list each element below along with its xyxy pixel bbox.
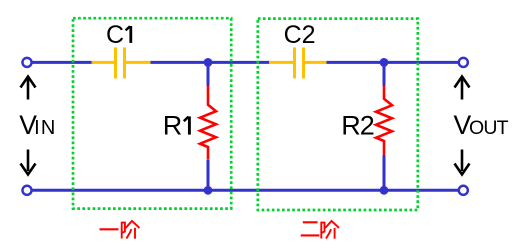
junction node A (top of R1) xyxy=(204,58,213,67)
junction node B (top of R2) xyxy=(380,58,389,67)
terminal: VOUT + (top right open circle) xyxy=(459,58,468,67)
svg-text:R: R xyxy=(163,111,183,141)
VIN up arrow xyxy=(21,77,36,100)
terminal: VIN - (bottom left open circle) xyxy=(22,186,31,195)
capacitor C2 right lead xyxy=(305,61,327,64)
terminal: VIN + (top left open circle) xyxy=(22,58,31,67)
junction node (bottom of R1) xyxy=(204,186,213,195)
capacitor C1 right lead xyxy=(126,61,151,64)
wire: R2 upper lead xyxy=(383,62,386,86)
label VIN xyxy=(19,110,55,140)
label C1 xyxy=(106,21,131,49)
label R1 xyxy=(163,111,190,141)
阶 glyph of 二阶 xyxy=(321,221,338,239)
VIN down arrow xyxy=(21,150,36,175)
wire: R2 lower lead xyxy=(383,155,386,190)
wire: top rail, right segment (C2 to VOUT terminal through node B) xyxy=(327,61,464,64)
svg-text:R2: R2 xyxy=(341,111,375,141)
label 二阶 (second order), 二 strokes xyxy=(301,222,320,235)
svg-text:C2: C2 xyxy=(284,21,316,49)
capacitor C1 left lead xyxy=(92,61,115,64)
VOUT up arrow xyxy=(455,77,470,100)
wire: R1 lower lead xyxy=(207,159,210,190)
stage-2 dashed box (二阶 section outline) xyxy=(258,19,418,210)
resistor R2 zigzag body xyxy=(376,85,392,156)
capacitor C2 left plate xyxy=(293,47,296,78)
svg-text:IN: IN xyxy=(34,117,55,139)
resistor R1 zigzag body xyxy=(200,85,216,159)
capacitor C1 right plate xyxy=(123,47,126,78)
wire: top rail, middle segment (C1 to C2 through node A) xyxy=(151,61,271,64)
label VOUT xyxy=(454,110,509,140)
svg-text:C: C xyxy=(106,21,124,49)
junction node (bottom of R2) xyxy=(380,186,389,195)
wire: bottom rail (VIN return to VOUT return) xyxy=(27,189,463,192)
VOUT down arrow xyxy=(455,150,470,175)
terminal: VOUT - (bottom right open circle) xyxy=(459,186,468,195)
label 一阶 (first order), 一 stroke xyxy=(100,228,119,230)
wire: top rail, left segment (VIN terminal to C1) xyxy=(27,61,93,64)
阶 glyph of 一阶 xyxy=(122,221,139,239)
capacitor C2 right plate xyxy=(302,47,305,78)
capacitor C1 left plate xyxy=(114,47,117,78)
wire: R1 upper lead xyxy=(207,62,210,86)
stage-1 dashed box (一阶 section outline) xyxy=(73,18,231,208)
svg-text:OUT: OUT xyxy=(469,117,509,139)
capacitor C2 left lead xyxy=(269,61,293,64)
